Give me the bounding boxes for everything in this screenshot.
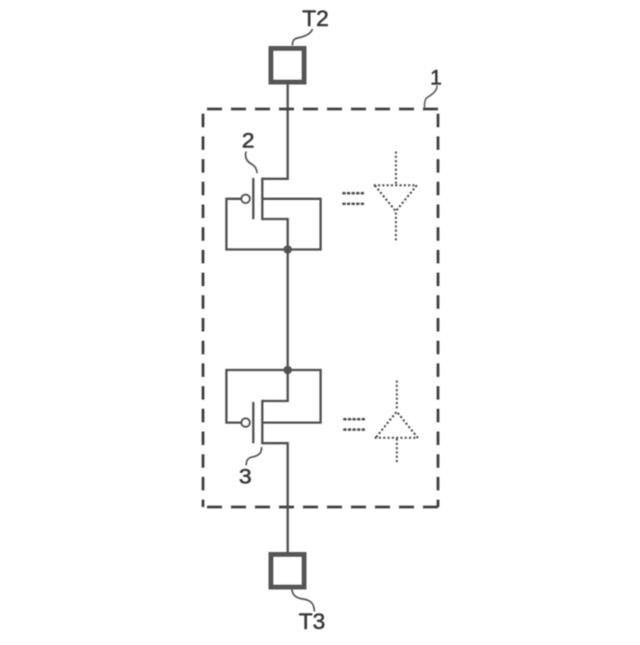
svg-text:1: 1 — [430, 67, 442, 90]
svg-text:T2: T2 — [302, 6, 329, 31]
svg-text:2: 2 — [242, 129, 255, 152]
svg-text:3: 3 — [239, 465, 252, 489]
svg-text:T3: T3 — [299, 609, 326, 634]
